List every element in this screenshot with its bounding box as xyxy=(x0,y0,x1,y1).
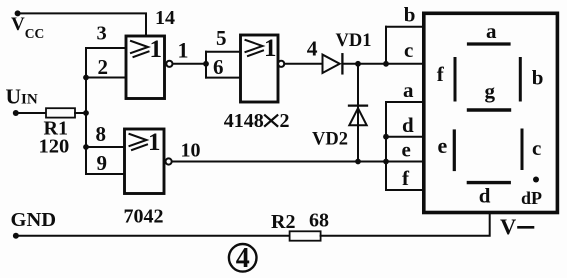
svg-text:5: 5 xyxy=(216,26,227,50)
svg-text:7042: 7042 xyxy=(124,206,164,228)
svg-text:2: 2 xyxy=(280,110,290,132)
junction riser d xyxy=(383,134,389,140)
wire R2 to V- xyxy=(321,214,490,236)
wire node 1 xyxy=(173,63,207,65)
wire pin a xyxy=(386,101,426,103)
display U2 body xyxy=(424,13,558,212)
output bubble U1b xyxy=(278,61,284,67)
wire VD2 branch xyxy=(357,64,359,162)
svg-text:e: e xyxy=(438,133,448,158)
resistor R1 xyxy=(46,108,75,117)
wire VD1 to display pin c xyxy=(342,63,425,65)
terminal Uin xyxy=(13,110,19,116)
wire pin f xyxy=(386,189,426,191)
svg-text:8: 8 xyxy=(96,122,107,146)
svg-text:10: 10 xyxy=(181,140,201,162)
svg-text:b: b xyxy=(532,66,544,90)
svg-text:V: V xyxy=(500,214,516,239)
wire pin 5 xyxy=(206,51,241,53)
svg-text:a: a xyxy=(486,19,497,43)
svg-text:VD1: VD1 xyxy=(336,31,372,51)
svg-text:6: 6 xyxy=(213,55,224,79)
svg-text:d: d xyxy=(402,113,414,137)
resistor R2 xyxy=(290,231,321,240)
wire pin b xyxy=(386,26,426,28)
svg-text:a: a xyxy=(403,78,414,102)
wire Uin to R1 xyxy=(16,112,46,114)
svg-text:4148: 4148 xyxy=(224,110,264,132)
riser pin b-c xyxy=(385,27,387,64)
wire pin d xyxy=(386,136,426,138)
svg-text:f: f xyxy=(437,62,445,86)
terminal GND xyxy=(13,233,19,239)
segment c bar xyxy=(521,130,524,169)
or-gate U1b symbol >=1 xyxy=(246,40,263,52)
or-gate U1a box xyxy=(126,36,165,99)
segment e bar xyxy=(453,131,456,170)
svg-text:GND: GND xyxy=(11,209,57,231)
svg-text:4: 4 xyxy=(307,36,318,60)
wire R1 to bus xyxy=(75,112,86,114)
junction VD2 bottom xyxy=(355,159,361,165)
junction VD2 branch xyxy=(355,61,361,67)
junction pin8/bus xyxy=(83,144,89,150)
segment d bar xyxy=(468,181,509,184)
svg-text:b: b xyxy=(404,2,416,26)
figure number circle 4 xyxy=(229,244,257,272)
junction riser b xyxy=(383,61,389,67)
wire node 10 to pin e xyxy=(172,161,426,163)
svg-text:120: 120 xyxy=(39,136,70,158)
svg-text:4: 4 xyxy=(236,243,250,274)
wire Vcc to pin 14 xyxy=(18,13,146,36)
svg-text:dP: dP xyxy=(521,188,542,208)
segment g bar xyxy=(469,108,510,111)
or-gate U1a symbol >=1 xyxy=(131,41,148,53)
svg-text:2: 2 xyxy=(98,55,109,79)
segment f bar xyxy=(454,59,457,101)
wire pin 8 xyxy=(86,146,125,148)
decimal point dot xyxy=(533,177,539,183)
svg-text:d: d xyxy=(479,184,491,208)
diode VD1 xyxy=(323,55,340,73)
svg-text:9: 9 xyxy=(97,151,108,175)
svg-text:g: g xyxy=(485,79,496,103)
svg-text:68: 68 xyxy=(309,210,329,232)
or-gate U1c box xyxy=(125,129,165,194)
svg-text:c: c xyxy=(404,38,413,62)
wire GND to R2 xyxy=(16,235,290,237)
junction pin2/bus xyxy=(83,75,89,81)
output bubble U1a xyxy=(166,61,172,67)
or-gate U1c symbol >=1 xyxy=(130,134,147,146)
riser pin a-f xyxy=(385,102,387,190)
svg-text:1: 1 xyxy=(264,35,277,62)
junction R1/bus xyxy=(83,110,89,116)
wire pin 2 xyxy=(86,77,126,79)
svg-text:1: 1 xyxy=(150,36,163,63)
segment a bar xyxy=(469,42,510,45)
or-gate U1b box xyxy=(241,35,279,102)
segment b bar xyxy=(519,59,522,101)
input bus wire xyxy=(85,48,87,174)
wire node 4 xyxy=(284,63,322,65)
riser pin5-pin6 xyxy=(205,52,207,78)
wire pin 3 xyxy=(86,47,126,49)
wire pin 6 xyxy=(206,77,241,79)
svg-text:c: c xyxy=(532,136,541,160)
wire pin 9 xyxy=(86,173,125,175)
svg-text:R2: R2 xyxy=(271,211,295,233)
terminal Vcc xyxy=(15,10,21,16)
junction riser e xyxy=(383,159,389,165)
diode VD2 xyxy=(349,104,367,106)
svg-text:1: 1 xyxy=(148,129,161,156)
svg-text:14: 14 xyxy=(155,7,175,29)
svg-text:f: f xyxy=(402,166,410,190)
svg-text:3: 3 xyxy=(97,23,107,45)
svg-text:e: e xyxy=(402,137,411,161)
output bubble U1c xyxy=(166,158,172,164)
svg-text:1: 1 xyxy=(178,38,189,63)
svg-text:VD2: VD2 xyxy=(312,130,348,150)
junction node 1 xyxy=(203,61,209,67)
